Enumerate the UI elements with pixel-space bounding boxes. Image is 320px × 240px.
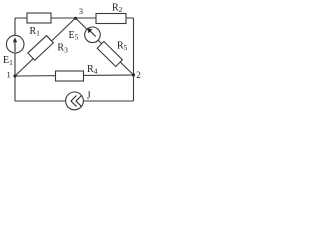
svg-text:E1: E1 — [3, 55, 13, 67]
svg-text:3: 3 — [79, 7, 83, 16]
svg-text:R2: R2 — [112, 3, 123, 15]
svg-text:R3: R3 — [57, 43, 68, 55]
svg-text:2: 2 — [136, 70, 141, 80]
svg-text:R5: R5 — [117, 41, 128, 53]
svg-text:1: 1 — [7, 69, 11, 79]
svg-text:R1: R1 — [30, 26, 41, 38]
svg-text:J: J — [87, 90, 91, 101]
svg-text:E5: E5 — [69, 30, 79, 42]
svg-text:R4: R4 — [87, 64, 98, 76]
